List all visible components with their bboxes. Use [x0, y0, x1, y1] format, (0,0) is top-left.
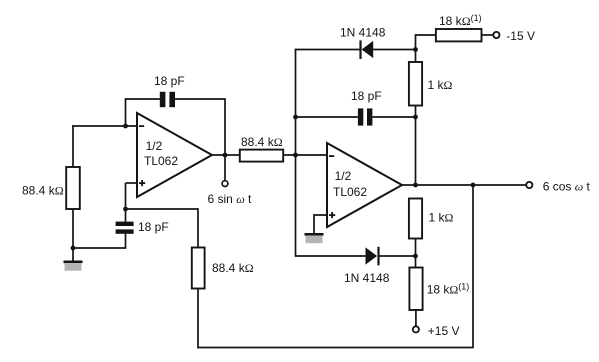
wire: riser to -15V branch: [415, 35, 417, 62]
wire: U1 output to R3: [212, 154, 240, 156]
svg-text:18 pF: 18 pF: [138, 220, 169, 234]
diode D1 1N4148 (pointing left): [359, 40, 373, 59]
wire: lower diode row left segment: [295, 255, 366, 257]
wire: left feedback riser of U2: [295, 50, 297, 257]
svg-text:18 pF: 18 pF: [154, 74, 185, 88]
resistor R5 1 kOhm (vertical, upper): [409, 62, 422, 106]
svg-text:1 kΩ: 1 kΩ: [429, 211, 454, 225]
diode D2 1N4148 (pointing right): [366, 247, 380, 266]
svg-text:1N 4148: 1N 4148: [340, 26, 386, 40]
node: U1 output junction: [223, 153, 228, 158]
wire: top diode row right segment: [373, 49, 416, 51]
svg-text:1/2: 1/2: [335, 169, 352, 183]
terminal: 6 sin wt output: [222, 181, 228, 187]
wire: C3 row right segment: [372, 116, 416, 118]
svg-text:1/2: 1/2: [146, 139, 163, 153]
wire: ground junction to C2 bottom (horizontal): [72, 247, 125, 249]
wire: C2 bottom plate to horizontal run: [125, 233, 127, 249]
node: U2 inverting node junction: [293, 153, 298, 158]
wire: down to R2: [197, 208, 199, 248]
node: junction at C3 row: [293, 115, 298, 120]
wire: + junction to R2 top (horizontal): [126, 208, 199, 210]
resistor R4 18 kOhm (horizontal, to -15V): [436, 29, 482, 41]
svg-text:1 kΩ: 1 kΩ: [428, 78, 453, 92]
wire: riser from C3 row to U2 output row: [415, 117, 417, 185]
node: U1 inverting input junction: [123, 124, 128, 129]
wire: R2 bottom down to bottom rail: [197, 289, 199, 349]
resistor R6 1 kOhm (vertical, lower): [409, 199, 422, 239]
terminal: +15 V supply: [413, 326, 419, 332]
wire: bottom rail (horizontal): [197, 347, 473, 349]
wire: feedback right riser to output: [224, 99, 226, 155]
svg-text:6 cos ω t: 6 cos ω t: [543, 180, 591, 194]
wire: feedback top left segment: [125, 98, 160, 100]
wire: top diode row left segment: [295, 49, 361, 51]
resistor R7 18 kOhm (vertical, to +15V): [409, 268, 422, 311]
svg-text:-15 V: -15 V: [506, 29, 535, 43]
svg-text:18 kΩ(1): 18 kΩ(1): [427, 282, 470, 297]
wire: R7 bottom to +15V terminal: [415, 310, 417, 326]
capacitor C1 18 pF (feedback of U1): [160, 92, 175, 107]
resistor R2 88.4 kOhm (vertical, lower): [192, 248, 205, 289]
op-amp U2 1/2 TL062: [327, 143, 402, 227]
svg-text:TL062: TL062: [333, 185, 367, 199]
terminal: 6 cos wt output: [526, 182, 532, 188]
svg-text:88.4 kΩ: 88.4 kΩ: [212, 261, 254, 275]
svg-text:18 pF: 18 pF: [351, 89, 382, 103]
wire: R1 bottom to ground: [72, 209, 74, 262]
wire: R6 bottom to lower diode row: [415, 239, 417, 269]
node: junction output / right riser: [413, 183, 418, 188]
resistor R3 88.4 kOhm (horizontal): [240, 150, 283, 162]
node: junction lower diode row / riser: [413, 254, 418, 259]
wire: from R1 top up to inverting node: [72, 125, 74, 167]
wire: U2 output row: [402, 184, 526, 186]
wire: to R4: [415, 34, 436, 36]
svg-text:88.4 kΩ: 88.4 kΩ: [241, 135, 283, 149]
node: junction on + input branch: [123, 207, 128, 212]
wire: R3 to U2 inverting input: [283, 154, 328, 156]
wire: U1 feedback left riser: [125, 99, 127, 127]
wire: U2 non-inverting input to ground: [314, 215, 328, 234]
capacitor C3 18 pF (feedback of U2): [358, 108, 373, 125]
wire: C3 row left segment: [296, 116, 359, 118]
ground (U2 non-inverting input): [305, 233, 324, 243]
capacitor C2 18 pF (horizontal plates): [116, 222, 134, 234]
svg-text:18 kΩ(1): 18 kΩ(1): [439, 13, 482, 28]
wire: stem to sine output terminal: [224, 155, 226, 180]
svg-text:1N 4148: 1N 4148: [344, 271, 390, 285]
wire: feedback top right segment: [175, 98, 226, 100]
svg-text:88.4 kΩ: 88.4 kΩ: [22, 184, 64, 198]
svg-text:TL062: TL062: [144, 154, 178, 168]
wire: inverting-input node of U1 (horizontal): [72, 125, 138, 127]
svg-text:6 sin ω t: 6 sin ω t: [208, 192, 253, 206]
resistor R1 88.4 kOhm (vertical, left): [66, 167, 80, 209]
wire: lower diode row right segment: [380, 255, 417, 257]
wire: R5 bottom to C3 row: [415, 106, 417, 119]
wire: R4 to -15V terminal: [482, 34, 494, 36]
op-amp U1 1/2 TL062: [137, 113, 212, 197]
svg-text:+15 V: +15 V: [428, 324, 460, 338]
node: junction diode row / -15V branch: [413, 47, 418, 52]
wire: stub into U1 non-inverting input: [126, 182, 138, 184]
wire: right riser from bottom rail to output row: [472, 185, 474, 348]
node: junction C3 row / right riser: [413, 115, 418, 120]
ground (below R1): [64, 261, 83, 271]
node: ground junction below R1: [71, 246, 76, 251]
wire: C2 top plate up to U1 non-inverting input: [125, 183, 127, 222]
node: junction output / bottom-loop riser: [471, 183, 476, 188]
terminal: -15 V supply: [493, 32, 499, 38]
